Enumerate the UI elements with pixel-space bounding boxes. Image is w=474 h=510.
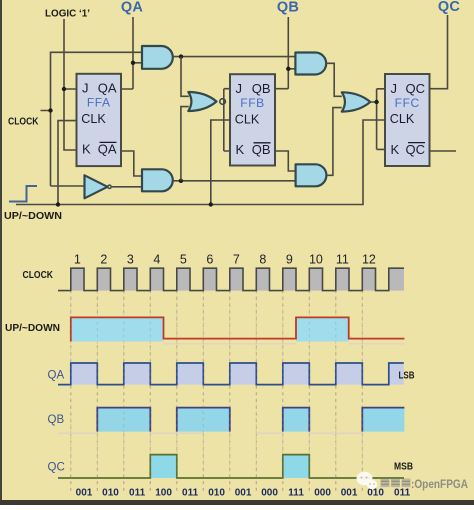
junction AND1-out: [179, 54, 183, 58]
junction QA/AND1: [131, 61, 135, 65]
svg-text:QC: QC: [438, 0, 460, 15]
svg-text:QC: QC: [406, 142, 426, 157]
wire AND3 output to OR2 input A: [326, 63, 342, 96]
wire FFA QAbar to AND2 input A: [121, 151, 142, 176]
svg-text:FFC: FFC: [395, 96, 420, 110]
watermark wechat icon: [357, 472, 378, 489]
svg-text:010: 010: [102, 488, 119, 499]
wire CLOCK net: stub, riser, top rail to AND1, feed to inverter: [41, 52, 143, 186]
svg-text:QB: QB: [252, 81, 271, 96]
wire bottom UP/~DOWN rail across to FFC CLK: [16, 120, 385, 205]
svg-text:011: 011: [129, 488, 146, 499]
svg-text:111: 111: [288, 488, 304, 499]
timing grid dashed overlay: [71, 296, 363, 494]
junction AND2-out: [179, 179, 183, 183]
svg-text::OpenFPGA: :OpenFPGA: [411, 477, 468, 491]
svg-text:LOGIC ‘1’: LOGIC ‘1’: [45, 9, 90, 20]
UP/~DOWN waveform (red): [71, 317, 405, 341]
inverter (UP/DOWN complement): [85, 175, 108, 198]
svg-text:3: 3: [127, 252, 134, 266]
clock cycle numbers 1-12: [74, 252, 376, 266]
svg-text:FFB: FFB: [240, 96, 264, 110]
svg-text:CLK: CLK: [235, 112, 260, 126]
svg-text:J: J: [391, 81, 398, 96]
wire AND1 output to AND3 input A: [173, 56, 296, 58]
svg-text:100: 100: [155, 488, 172, 499]
UP/~DOWN row pale baseline: [164, 343, 405, 345]
svg-text:7: 7: [233, 252, 240, 266]
or-gate OR2 (feeds FFC J,K): [342, 92, 371, 111]
binary count labels: [76, 488, 411, 499]
svg-text:QB: QB: [277, 0, 299, 16]
svg-text:QA: QA: [98, 81, 117, 96]
svg-text:LSB: LSB: [399, 371, 415, 382]
svg-text:QA: QA: [121, 0, 143, 16]
svg-text:4: 4: [153, 252, 160, 266]
svg-text:QB: QB: [252, 142, 271, 157]
svg-text:6: 6: [206, 252, 213, 266]
svg-text:MSB: MSB: [394, 462, 413, 473]
svg-text:QA: QA: [48, 370, 65, 382]
svg-text:UP/~DOWN: UP/~DOWN: [5, 323, 60, 334]
wire OR2 output to FFC J and K: [369, 89, 385, 150]
svg-text:001: 001: [235, 488, 252, 499]
wire FFB CLK down to bottom rail: [211, 120, 230, 205]
svg-text:CLK: CLK: [390, 112, 415, 126]
svg-text:10: 10: [309, 252, 323, 266]
svg-text:001: 001: [76, 488, 93, 499]
svg-text:K: K: [82, 142, 91, 157]
wire AND2 out up to OR1 input B: [181, 107, 189, 181]
wire QC node: FFC.QC up to label: [430, 15, 448, 89]
svg-text:CLOCK: CLOCK: [8, 117, 39, 128]
junction OR2-out: [374, 100, 378, 104]
svg-text:011: 011: [394, 488, 411, 499]
svg-text:K: K: [236, 142, 245, 157]
page left border: [0, 0, 2, 500]
and-gate AND4 (QBbar*AND2): [296, 164, 327, 186]
svg-text:8: 8: [259, 252, 266, 266]
wire AND2 output to AND4 input B: [173, 180, 296, 182]
svg-text:QB: QB: [48, 414, 65, 426]
wire inverter output to AND2 input B: [112, 186, 142, 188]
flip-flop U2 FFB: [230, 74, 275, 165]
svg-text:010: 010: [367, 488, 384, 499]
svg-text:000: 000: [314, 488, 331, 499]
svg-text:J: J: [236, 81, 243, 96]
svg-text:011: 011: [182, 488, 199, 499]
wire AND4 output to OR2 input B: [326, 108, 341, 176]
junction LOGIC1/J: [62, 87, 66, 91]
junction rail/FFA-CLK: [56, 202, 60, 206]
CLOCK waveform pulses: [58, 268, 404, 290]
watermark text: [381, 477, 469, 491]
svg-text:FFA: FFA: [87, 96, 111, 110]
svg-text:12: 12: [362, 252, 376, 266]
QC waveform: [58, 455, 404, 478]
wire FFB QBbar to AND4 input A: [275, 151, 296, 171]
QA waveform: [58, 363, 404, 385]
wire FFC QCbar stub: [430, 150, 457, 152]
svg-text:CLK: CLK: [81, 112, 106, 126]
flip-flop U1 FFA: [77, 74, 122, 166]
timing grid dashed lines: [71, 291, 363, 494]
svg-text:11: 11: [336, 252, 349, 266]
and-gate AND1 (top, QA*rail): [142, 46, 173, 69]
svg-text:K: K: [391, 142, 400, 157]
svg-text:J: J: [82, 81, 89, 96]
page bottom border: [0, 500, 474, 505]
svg-text:CLOCK: CLOCK: [23, 270, 54, 281]
svg-text:010: 010: [208, 488, 225, 499]
svg-text:UP/~DOWN: UP/~DOWN: [4, 211, 62, 222]
svg-text:000: 000: [261, 488, 278, 499]
wire AND1 out down to OR1 input A: [181, 57, 189, 97]
svg-text:QC: QC: [406, 81, 426, 96]
svg-text:1: 1: [74, 252, 81, 266]
junction QB/AND3: [286, 67, 290, 71]
or-gate OR1 with output bubble (feeds FFB J,K): [188, 92, 216, 111]
svg-text:001: 001: [341, 488, 358, 499]
UP/~DOWN input step symbol: [9, 186, 37, 202]
wire OR1 output to FFB J and K: [224, 89, 230, 151]
wire LOGIC1 to J/K of FFA: [64, 19, 77, 150]
svg-text:2: 2: [100, 252, 107, 266]
svg-text:QC: QC: [48, 462, 65, 474]
and-gate AND2 (bottom, QAbar*inv): [142, 169, 173, 191]
flip-flop U3 FFC: [385, 74, 430, 166]
QB waveform pulses: [97, 408, 404, 432]
junction CLOCK stub: [48, 108, 52, 112]
wire QB node: FFB.QB up to label and to AND3 input B: [275, 17, 295, 89]
svg-text:QA: QA: [98, 142, 117, 157]
svg-text:5: 5: [180, 252, 187, 266]
and-gate AND3 (QB*AND1): [295, 53, 326, 75]
svg-text:9: 9: [286, 252, 293, 266]
QB waveform baseline (light): [58, 432, 362, 434]
junction rail/FFB-CLK: [209, 202, 213, 206]
wire FFA CLK down to bottom rail: [58, 121, 77, 205]
wire QA node: FFA.QA up to label and to AND1 input: [121, 17, 142, 89]
